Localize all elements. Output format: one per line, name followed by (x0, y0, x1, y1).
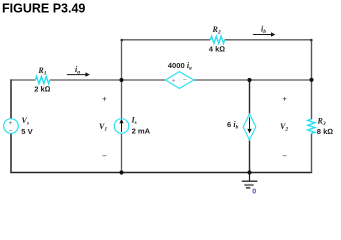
wire: vertical below 6ib diamond (249, 140, 251, 173)
wire: left vertical below Vs (10, 133, 12, 172)
wire: right vertical above R3 (311, 40, 313, 119)
svg-text:−: − (102, 151, 107, 160)
svg-text:Vs: Vs (22, 116, 30, 127)
node dot: mid wire / center vertical junction (119, 78, 123, 82)
svg-text:0: 0 (252, 189, 256, 196)
svg-text:+: + (102, 95, 107, 104)
node dot: bottom wire / ground junction (247, 170, 251, 174)
dependent source 4000ia (diamond) (165, 72, 193, 89)
svg-text:R3: R3 (317, 117, 326, 128)
wire: center vertical from top wire through mid node to Is (121, 40, 123, 119)
corner dot top-left of top wire (121, 39, 124, 42)
svg-text:5 V: 5 V (21, 127, 33, 136)
resistor R2 (210, 36, 224, 43)
wire: center vertical below Is (121, 133, 123, 172)
svg-text:+: + (9, 121, 13, 127)
svg-text:+: + (282, 94, 287, 103)
svg-text:Is: Is (131, 116, 137, 127)
svg-text:2 kΩ: 2 kΩ (34, 85, 51, 94)
wire: middle horizontal diamond-to-right segment (194, 79, 312, 81)
ground (242, 173, 258, 188)
svg-text:FIGURE P3.49: FIGURE P3.49 (2, 2, 85, 16)
dependent source 6ib (diamond with down arrow) (243, 114, 256, 140)
6ib arrow down (249, 117, 251, 129)
wire: right vertical below R3 (311, 134, 313, 173)
svg-text:R1: R1 (37, 66, 46, 77)
node dot: mid wire / right wire junction (309, 78, 313, 82)
svg-text:8 kΩ: 8 kΩ (317, 127, 334, 136)
wire: left vertical above Vs (10, 79, 12, 119)
node dot: bottom wire / center vertical junction (119, 170, 123, 174)
svg-text:+: + (172, 78, 176, 84)
wire: middle horizontal R1-to-diamond segment (50, 79, 166, 81)
svg-text:ia: ia (75, 65, 80, 76)
svg-text:R2: R2 (212, 25, 221, 36)
svg-text:−: − (282, 151, 287, 160)
wire: bottom horizontal (10, 172, 312, 174)
resistor R1 (35, 76, 49, 83)
svg-text:V1: V1 (99, 122, 107, 133)
corner dot top-right of top wire (310, 39, 313, 42)
svg-text:4000 ia: 4000 ia (168, 61, 192, 72)
svg-text:2 mA: 2 mA (132, 127, 151, 136)
wire: top horizontal right segment (225, 39, 313, 41)
svg-text:4 kΩ: 4 kΩ (209, 45, 226, 54)
wire: top horizontal left segment (122, 39, 211, 41)
Is arrow up (121, 122, 123, 132)
svg-text:6 ib: 6 ib (227, 120, 239, 131)
wire: vertical above 6ib diamond (249, 80, 251, 114)
wire: middle horizontal left segment (node left to R1) (11, 79, 35, 81)
svg-text:−: − (183, 77, 187, 84)
current arrow ia (67, 74, 86, 76)
current arrow ib (253, 34, 272, 36)
current source Is (circle with up arrow) (114, 119, 129, 134)
resistor R3 (vertical) (308, 119, 315, 133)
svg-text:−: − (9, 128, 13, 135)
svg-text:V2: V2 (280, 122, 288, 133)
voltage source Vs (circle) (4, 119, 19, 134)
node dot: mid wire / 6ib branch junction (247, 78, 251, 82)
svg-text:ib: ib (261, 25, 266, 36)
